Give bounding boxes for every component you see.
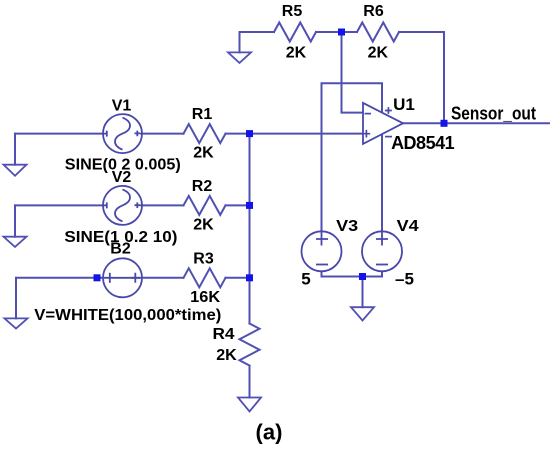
svg-text:V1: V1 — [112, 98, 132, 115]
svg-text:R6: R6 — [363, 3, 384, 20]
svg-text:5: 5 — [301, 270, 310, 289]
svg-text:2K: 2K — [286, 45, 307, 62]
svg-text:V=WHITE(100,000*time): V=WHITE(100,000*time) — [34, 307, 221, 324]
svg-text:Sensor_out: Sensor_out — [451, 104, 536, 124]
svg-text:R4: R4 — [213, 326, 235, 343]
svg-text:2K: 2K — [193, 145, 214, 162]
svg-text:B2: B2 — [110, 241, 131, 258]
svg-text:R5: R5 — [282, 3, 303, 20]
svg-text:R3: R3 — [193, 251, 214, 268]
svg-text:AD8541: AD8541 — [391, 133, 455, 153]
svg-text:–5: –5 — [395, 270, 414, 289]
svg-text:U1: U1 — [393, 95, 415, 114]
svg-text:16K: 16K — [190, 289, 220, 306]
svg-text:2K: 2K — [216, 347, 237, 364]
svg-text:(a): (a) — [256, 420, 283, 445]
svg-text:V2: V2 — [112, 169, 132, 186]
svg-text:R1: R1 — [192, 106, 213, 123]
svg-text:R2: R2 — [192, 178, 213, 195]
svg-text:V4: V4 — [397, 218, 419, 235]
svg-text:V3: V3 — [336, 218, 358, 235]
svg-text:2K: 2K — [193, 217, 214, 234]
svg-text:2K: 2K — [368, 45, 389, 62]
